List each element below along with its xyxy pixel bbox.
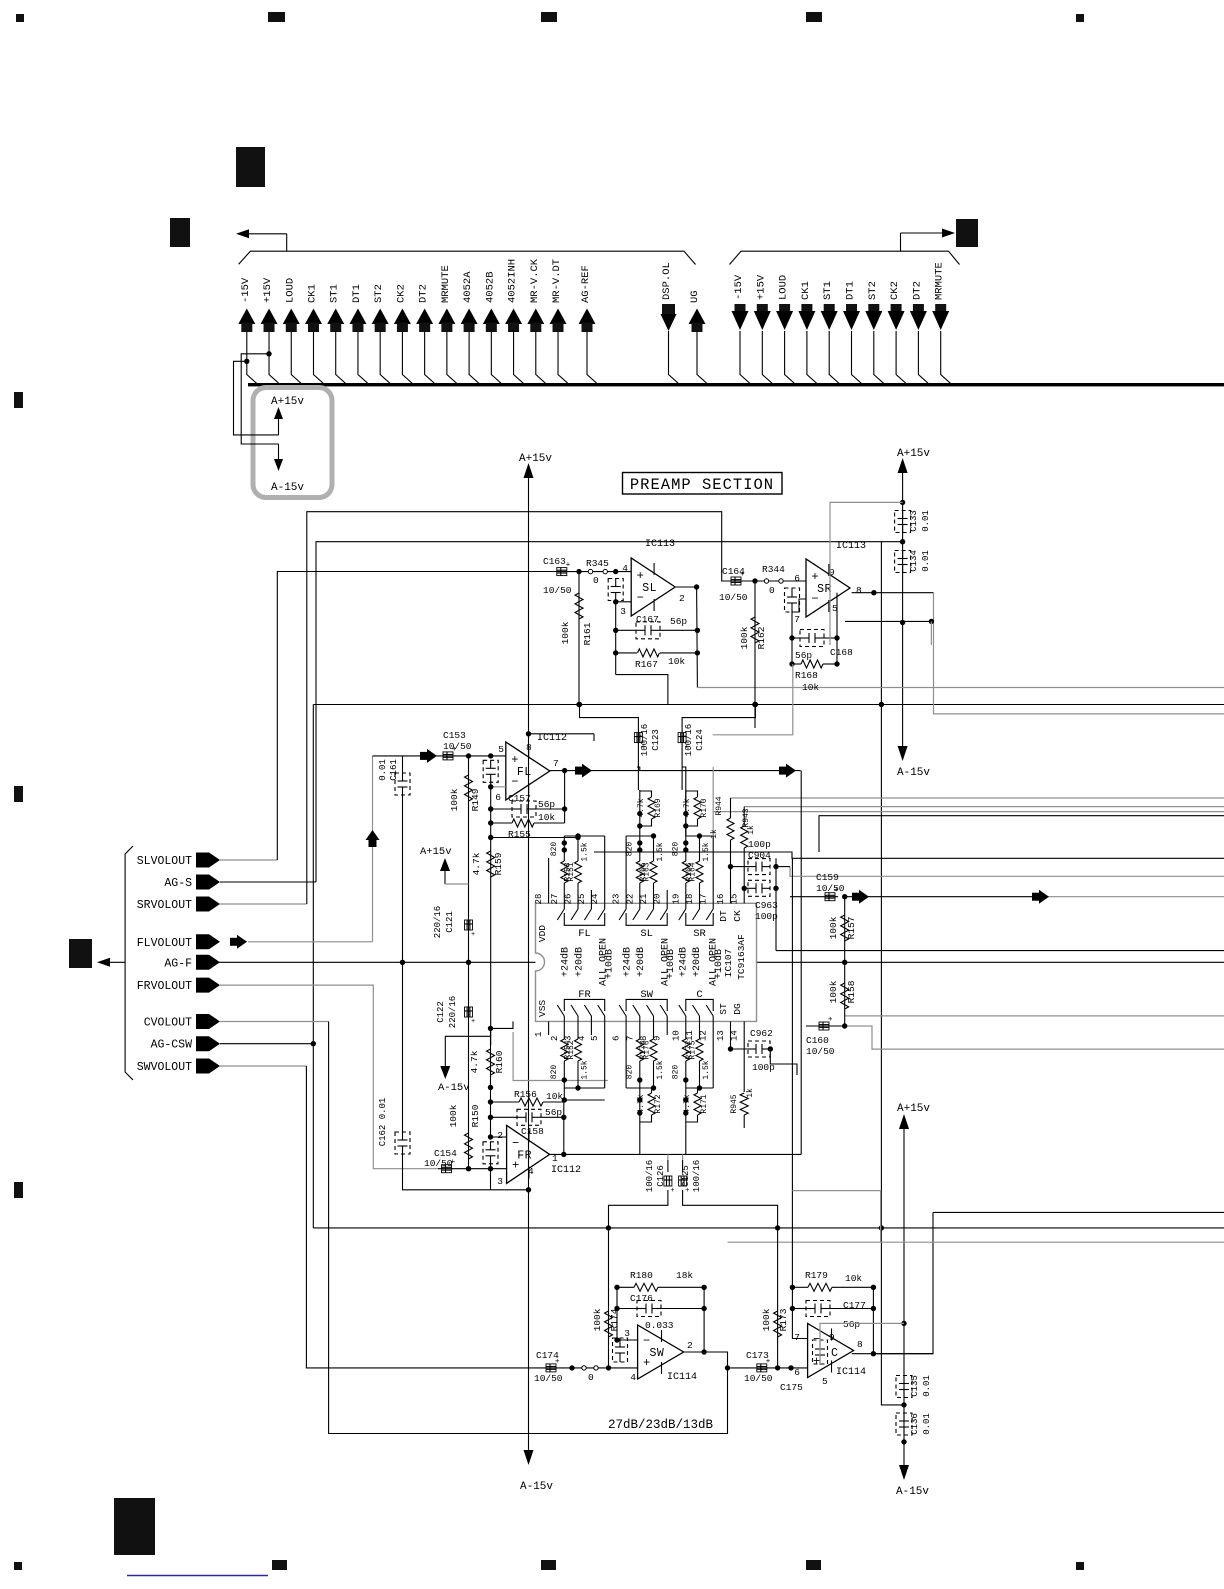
svg-text:ST: ST [718, 1003, 729, 1015]
arrow to left tab [247, 233, 287, 235]
svg-text:C161: C161 [389, 759, 399, 781]
wire C risers [685, 1140, 687, 1154]
svg-text:10k: 10k [845, 1273, 862, 1284]
wire FR col B [491, 1021, 514, 1137]
svg-text:CK: CK [732, 910, 743, 922]
wire SW minus loop [617, 1287, 638, 1340]
capacitor across SR inputs [785, 588, 800, 612]
svg-text:3: 3 [624, 1328, 630, 1339]
wire group riser bottom R175 [712, 1035, 714, 1088]
connector tag SLVOLOUT [196, 853, 220, 868]
gray wire jog 1190 [792, 1191, 880, 1243]
svg-text:C963: C963 [755, 900, 778, 911]
svg-text:SR: SR [693, 928, 706, 940]
svg-text:IC113: IC113 [836, 541, 866, 552]
svg-text:C177: C177 [843, 1300, 866, 1311]
svg-text:C176: C176 [630, 1293, 653, 1304]
IC107 bottom pin 5 [604, 1021, 606, 1035]
wire C output [852, 1353, 933, 1355]
rail A-15v right lower [899, 1465, 909, 1480]
capacitor C163 [557, 568, 567, 576]
svg-text:+: + [811, 570, 818, 584]
wire FL output [565, 770, 801, 772]
svg-text:C126: C126 [656, 1165, 666, 1187]
resistor R151 [563, 883, 565, 890]
gray right row 1016 [845, 1015, 1224, 1017]
svg-text:AG-REF: AG-REF [580, 265, 592, 303]
svg-text:100k: 100k [448, 1104, 459, 1127]
svg-text:R162: R162 [756, 626, 767, 649]
svg-text:5: 5 [498, 744, 504, 755]
svg-text:12: 12 [699, 1030, 709, 1041]
svg-text:100/16: 100/16 [645, 1160, 655, 1192]
svg-text:DT2: DT2 [911, 281, 923, 300]
gray wire SL out to right edge [697, 687, 1224, 689]
connector tag SWVOLOUT [196, 1059, 220, 1074]
svg-text:10/50: 10/50 [534, 1373, 563, 1384]
IC U-IC107 TC9163AF body [536, 903, 757, 1021]
resistor R166 [699, 883, 701, 890]
svg-text:+10dB: +10dB [665, 949, 677, 979]
svg-text:+: + [670, 1187, 674, 1195]
IC107 bottom pin 4 [590, 1021, 592, 1035]
svg-text:+: + [511, 753, 518, 767]
svg-text:A+15v: A+15v [897, 1103, 930, 1115]
svg-text:SL: SL [640, 928, 653, 940]
wire FR output [550, 1153, 802, 1155]
svg-text:R155: R155 [508, 829, 531, 840]
op-amp U-SW IC114 [638, 1325, 684, 1379]
svg-text:+: + [471, 931, 475, 939]
svg-text:R170: R170 [700, 798, 709, 817]
svg-text:1.5k: 1.5k [702, 1060, 711, 1079]
svg-text:15: 15 [730, 894, 740, 905]
wire C minus loop [792, 1287, 807, 1338]
op-amp U-FR IC112 [507, 1125, 550, 1183]
capacitor C157 [491, 808, 512, 810]
capacitor across SL inputs [608, 579, 623, 601]
wire FRVOLOUT to FR input [220, 985, 438, 1169]
svg-text:C162 0.01: C162 0.01 [378, 1098, 388, 1147]
svg-text:100k: 100k [761, 1308, 772, 1331]
svg-text:1k: 1k [746, 1088, 755, 1098]
svg-text:100/16: 100/16 [640, 724, 650, 756]
svg-text:0: 0 [769, 585, 775, 596]
capacitor C168 [792, 637, 800, 639]
svg-text:6: 6 [794, 1367, 800, 1378]
svg-text:3: 3 [497, 1176, 503, 1187]
svg-text:100k: 100k [560, 621, 571, 644]
svg-text:+20dB: +20dB [573, 947, 585, 977]
svg-text:100k: 100k [449, 788, 460, 811]
svg-text:16: 16 [716, 894, 726, 905]
gray wire C175 bypass [820, 1323, 904, 1365]
svg-text:R153: R153 [564, 862, 573, 881]
wire -15V to legend [244, 359, 249, 364]
svg-text:IC112: IC112 [537, 733, 567, 744]
IC107 top pin 24 [604, 890, 606, 903]
resistor R169 [639, 790, 641, 836]
svg-text:100k: 100k [592, 1308, 603, 1331]
svg-text:A+15v: A+15v [420, 846, 452, 858]
wire CVOLOUT to C input [220, 1021, 329, 1023]
svg-text:56p: 56p [843, 1319, 860, 1330]
svg-text:UG: UG [689, 290, 701, 303]
svg-text:DT1: DT1 [351, 284, 363, 303]
capacitor C123 [580, 705, 639, 731]
capacitor C160 [819, 1022, 829, 1030]
capacitor C126 [667, 1160, 669, 1172]
resistor R175 [685, 1035, 687, 1039]
svg-text:7: 7 [553, 758, 559, 769]
bus outline group A [239, 251, 696, 264]
wire C123 to SL group [637, 767, 640, 770]
black tab right [956, 219, 978, 247]
svg-text:14: 14 [730, 1030, 740, 1041]
resistor R152 [563, 1035, 565, 1039]
power flag A-15v near FR [445, 1036, 490, 1066]
IC107 bottom pin 14 [743, 1021, 745, 1035]
capacitor C177 [792, 1308, 806, 1310]
svg-text:DSP.OL: DSP.OL [661, 262, 673, 300]
wire FLVOLOUT to FL input [230, 938, 237, 946]
svg-text:C157: C157 [508, 793, 531, 804]
wire volume row with arrows [845, 896, 1048, 898]
resistor R156 [491, 1101, 520, 1103]
svg-text:MR-V.CK: MR-V.CK [529, 258, 541, 303]
svg-text:CK2: CK2 [889, 281, 901, 300]
svg-text:100k: 100k [739, 626, 750, 649]
svg-text:SLVOLOUT: SLVOLOUT [137, 855, 192, 868]
svg-text:R168: R168 [795, 670, 818, 681]
capacitor C125 [682, 1160, 684, 1172]
wire SL fb bottom corner [616, 675, 668, 705]
svg-text:+24dB: +24dB [621, 947, 633, 977]
wire SW col riser [667, 1154, 669, 1160]
wire C input row [728, 1367, 808, 1369]
svg-text:820: 820 [671, 1065, 680, 1080]
svg-text:CVOLOUT: CVOLOUT [144, 1017, 192, 1030]
resistor R150 [468, 962, 470, 1168]
capacitor C153 [443, 752, 453, 760]
svg-text:AG-CSW: AG-CSW [151, 1039, 193, 1052]
svg-text:R179: R179 [805, 1270, 828, 1281]
wire SW risers [639, 1140, 641, 1154]
IC107 top pin 21 [653, 890, 655, 903]
black tab bottom-left [114, 1498, 155, 1555]
IC107 top pin 25 [590, 890, 592, 903]
resistor R157 [844, 897, 846, 963]
resistor R174 [608, 1228, 610, 1368]
svg-text:0.01: 0.01 [921, 550, 931, 572]
gray path FR array [513, 1032, 608, 1081]
svg-text:A+15v: A+15v [519, 453, 552, 465]
resistor R149 [468, 756, 470, 962]
svg-text:3: 3 [564, 1036, 574, 1041]
resistor R168 [792, 663, 801, 665]
IC107 switch group FL [563, 903, 565, 909]
capacitor C167 [616, 629, 636, 631]
capacitor C162 [395, 1132, 410, 1154]
svg-text:C: C [696, 989, 702, 1001]
op-amp U-C IC114 [808, 1324, 854, 1378]
IC107 bottom pin 9 [666, 1021, 668, 1035]
svg-text:FL: FL [517, 766, 532, 779]
svg-text:18k: 18k [676, 1270, 693, 1281]
connector tag AG-CSW [196, 1036, 220, 1051]
svg-text:100k: 100k [828, 916, 839, 939]
svg-text:C136: C136 [910, 1413, 920, 1435]
svg-text:+24dB: +24dB [677, 947, 689, 977]
gray right row 812 [713, 811, 1224, 813]
wire SR minus loop [792, 599, 806, 612]
svg-text:0.033: 0.033 [645, 1320, 674, 1331]
resistor R153 [577, 883, 579, 890]
black right row 950 [776, 950, 1224, 952]
svg-text:R174: R174 [609, 1308, 620, 1331]
svg-text:CK1: CK1 [306, 284, 318, 303]
gray right row 798 [731, 797, 1224, 799]
svg-text:C133: C133 [909, 510, 919, 532]
svg-text:1k: 1k [747, 825, 756, 835]
svg-text:SWVOLOUT: SWVOLOUT [137, 1061, 192, 1074]
black row 852-858 [594, 852, 1224, 858]
svg-text:R167: R167 [635, 659, 658, 670]
svg-text:IC114: IC114 [836, 1367, 866, 1378]
svg-text:56p: 56p [670, 616, 687, 627]
svg-text:2: 2 [679, 593, 685, 604]
gray right row 806 [744, 806, 1224, 808]
resistor R164 [685, 883, 687, 890]
svg-text:LOUD: LOUD [284, 278, 296, 303]
connector tag CVOLOUT [196, 1014, 220, 1029]
IC107 top pin 26 [577, 890, 579, 903]
svg-text:C: C [831, 1347, 838, 1360]
svg-text:1: 1 [534, 1032, 544, 1037]
wire FR right rail [563, 1102, 565, 1154]
svg-text:0.01: 0.01 [922, 1413, 932, 1435]
wire SL input row [558, 571, 631, 573]
svg-text:1.5k: 1.5k [581, 1060, 590, 1079]
svg-text:C175: C175 [780, 1382, 803, 1393]
PREAMP SECTION label [623, 473, 783, 495]
svg-text:2: 2 [550, 1036, 560, 1041]
svg-text:+15V: +15V [755, 274, 767, 300]
svg-text:0.01: 0.01 [922, 1375, 932, 1397]
resistor R160 [487, 1049, 495, 1075]
main horizontal bus [248, 383, 1224, 386]
wire SRVOLOUT to SR input [220, 903, 307, 905]
svg-text:IC113: IC113 [645, 539, 675, 550]
svg-text:24: 24 [590, 894, 600, 905]
svg-text:R158: R158 [846, 980, 857, 1003]
capacitor C963 [744, 887, 748, 889]
svg-text:A+15v: A+15v [897, 448, 930, 460]
resistor R178 [653, 1035, 655, 1039]
svg-text:4: 4 [622, 563, 628, 574]
svg-text:7: 7 [794, 1332, 800, 1343]
wire AG-F row (thick) [219, 961, 536, 963]
legend A-15v [278, 444, 280, 460]
IC107 bottom pin 10 [685, 1021, 687, 1035]
svg-text:A-15v: A-15v [271, 482, 304, 494]
svg-text:C174: C174 [536, 1350, 559, 1361]
svg-text:10/50: 10/50 [543, 585, 572, 596]
svg-text:8: 8 [639, 1036, 649, 1041]
capacitor C161 [402, 756, 404, 773]
capacitor C136 [901, 1402, 906, 1407]
svg-text:C160: C160 [806, 1035, 829, 1046]
svg-text:C153: C153 [443, 730, 466, 741]
svg-text:-15V: -15V [733, 274, 745, 300]
wire group riser bottom R152 [604, 1035, 606, 1088]
svg-text:5: 5 [590, 1036, 600, 1041]
IC107 switch group C bottom [685, 1016, 687, 1021]
svg-text:IC114: IC114 [667, 1372, 697, 1383]
svg-text:10k: 10k [802, 682, 819, 693]
svg-text:+10dB: +10dB [603, 949, 615, 979]
svg-text:ST1: ST1 [329, 284, 341, 303]
arrow to right tab [900, 233, 902, 251]
resistor R170 [685, 790, 687, 836]
svg-text:7: 7 [625, 1036, 635, 1041]
svg-text:9: 9 [653, 1036, 663, 1041]
connector tag FRVOLOUT [196, 978, 220, 993]
capacitor C135 [901, 1321, 906, 1326]
svg-text:820: 820 [671, 842, 680, 857]
capacitor C173 [757, 1364, 767, 1372]
svg-text:100/16: 100/16 [692, 1160, 702, 1192]
svg-text:10/50: 10/50 [806, 1046, 835, 1057]
svg-text:6: 6 [612, 1036, 622, 1041]
IC107 bottom pin 6 [625, 1021, 627, 1035]
svg-text:R945: R945 [730, 1094, 739, 1113]
svg-text:4.7k: 4.7k [683, 798, 692, 817]
IC107 bottom pin 11 [699, 1021, 701, 1035]
wire FL input row [373, 755, 506, 757]
svg-text:SL: SL [642, 582, 657, 595]
capacitor across FL inputs [483, 760, 498, 782]
svg-text:9: 9 [829, 1332, 835, 1343]
wire VDD riser [548, 858, 550, 890]
svg-text:10: 10 [671, 1030, 681, 1041]
svg-text:-15V: -15V [240, 277, 252, 303]
IC107 bottom pin 2 [563, 1021, 565, 1035]
svg-text:ST2: ST2 [867, 281, 879, 300]
IC107 bottom pin 7 [639, 1021, 641, 1035]
svg-text:2: 2 [687, 1340, 693, 1351]
svg-text:3: 3 [620, 606, 626, 617]
wire SLVOLOUT to SL input [220, 859, 277, 861]
black tab top-center [236, 147, 265, 187]
op-amp U-SL IC113 [631, 558, 675, 616]
svg-text:+: + [828, 1016, 833, 1024]
svg-text:FLVOLOUT: FLVOLOUT [137, 937, 192, 950]
svg-text:C123: C123 [651, 729, 661, 751]
svg-text:10/50: 10/50 [424, 1158, 453, 1169]
svg-text:4.7k: 4.7k [683, 1094, 692, 1113]
svg-text:C135: C135 [910, 1375, 920, 1397]
svg-text:CK2: CK2 [395, 284, 407, 303]
connector tag AG-F [196, 955, 220, 970]
wire group riser R164 [712, 836, 714, 890]
registration marks left [14, 392, 23, 408]
svg-text:10/50: 10/50 [719, 592, 748, 603]
svg-text:56p: 56p [538, 799, 555, 810]
svg-text:+: + [813, 1355, 820, 1369]
resistor R344 [764, 579, 768, 583]
connector tag FLVOLOUT [196, 934, 220, 949]
svg-text:8: 8 [526, 742, 532, 753]
svg-text:5: 5 [822, 1376, 828, 1387]
svg-text:56p: 56p [795, 650, 812, 661]
wire SW input row [544, 1367, 638, 1369]
svg-text:4052INH: 4052INH [507, 259, 519, 303]
IC107 bottom pin 8 [653, 1021, 655, 1035]
svg-text:DG: DG [732, 1003, 743, 1015]
svg-text:C158: C158 [521, 1126, 544, 1137]
gray right row 1049 [845, 1026, 1224, 1049]
svg-text:SW: SW [650, 1347, 665, 1360]
op-amp U-SR IC113 [806, 559, 850, 617]
capacitor C124 [682, 705, 755, 731]
svg-text:C134: C134 [909, 550, 919, 572]
svg-text:19: 19 [671, 894, 681, 905]
svg-text:2: 2 [497, 1130, 503, 1141]
svg-text:+10dB: +10dB [713, 949, 725, 979]
svg-text:R154: R154 [564, 1040, 573, 1059]
svg-text:18: 18 [685, 894, 695, 905]
rail A-15v right [898, 746, 908, 761]
capacitor across SW inputs [613, 1338, 628, 1362]
svg-text:8: 8 [856, 585, 862, 596]
resistor R180 [617, 1286, 634, 1288]
svg-text:220/16: 220/16 [448, 996, 458, 1028]
svg-text:PREAMP SECTION: PREAMP SECTION [630, 476, 774, 494]
IC107 bottom pin 13 [730, 1021, 732, 1035]
svg-text:R150: R150 [470, 1104, 481, 1127]
rail A-15v left bottom [524, 1450, 534, 1465]
svg-text:C163: C163 [543, 556, 566, 567]
svg-text:27dB/23dB/13dB: 27dB/23dB/13dB [608, 1418, 714, 1432]
svg-text:4.7k: 4.7k [637, 798, 646, 817]
svg-text:C167: C167 [636, 614, 659, 625]
svg-text:0.01: 0.01 [378, 759, 388, 781]
svg-text:27: 27 [550, 894, 560, 905]
svg-text:R160: R160 [494, 1050, 505, 1073]
svg-text:17: 17 [699, 894, 709, 905]
svg-text:10k: 10k [668, 656, 685, 667]
svg-text:R944: R944 [715, 796, 724, 815]
ground bus lower [313, 1227, 1224, 1229]
svg-text:220/16: 220/16 [433, 906, 443, 938]
svg-text:10k: 10k [538, 812, 555, 823]
wire C124 to SR group [682, 767, 686, 836]
resistor R177 [699, 1035, 701, 1039]
svg-text:SW: SW [640, 989, 653, 1001]
svg-text:4.7k: 4.7k [469, 1050, 480, 1073]
svg-text:ST1: ST1 [822, 281, 834, 300]
registration marks top [16, 14, 24, 22]
resistor R159 [487, 851, 495, 877]
wire FL minus loop [491, 786, 506, 788]
wire SR input row [731, 580, 806, 582]
svg-text:CK1: CK1 [800, 281, 812, 300]
resistor R155 [491, 822, 512, 824]
flow arrow FL input [420, 752, 427, 760]
resistor R171 [685, 1080, 687, 1140]
wire group riser R163 [625, 836, 627, 890]
